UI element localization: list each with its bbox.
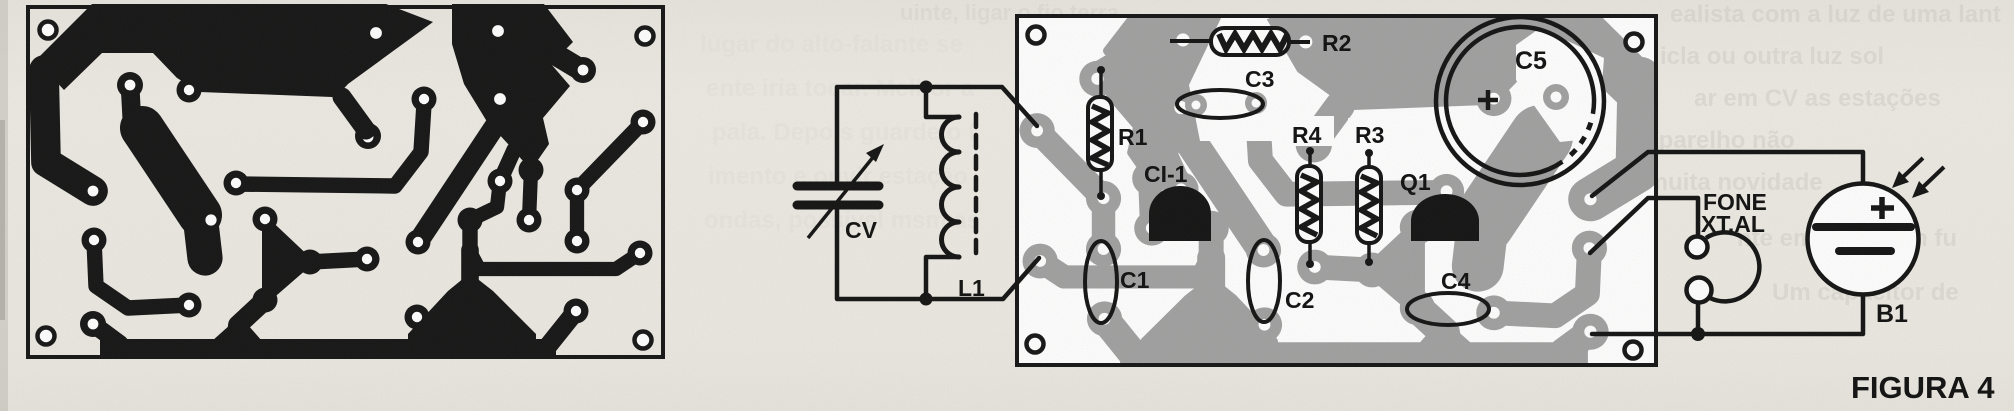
gray holes right mass bbox=[1176, 33, 1189, 46]
gray copper right mass top bbox=[1108, 13, 1230, 178]
gray wire P_c chain bbox=[1494, 248, 1590, 316]
gray pad mound left bbox=[1247, 307, 1282, 342]
FONE XTAL circles bbox=[1687, 237, 1708, 258]
wire L1 left leg top bbox=[926, 87, 959, 117]
C3 solder pads bbox=[1185, 94, 1207, 116]
junction dot fone-bottom wire bbox=[1691, 327, 1705, 341]
gray triangle cluster bbox=[1367, 220, 1420, 316]
wire bottom to B1 bbox=[1592, 293, 1863, 334]
IC CI-1 dome bbox=[1149, 186, 1211, 241]
C5 dashes bbox=[1571, 123, 1591, 156]
capacitor C2 bbox=[1248, 240, 1280, 322]
gray pad under slab edge bbox=[1476, 81, 1511, 116]
C5 inner arc bbox=[1446, 27, 1594, 175]
gray wire bar to p11 bbox=[1105, 319, 1133, 354]
CV arrow bbox=[808, 156, 874, 238]
gray pad p7 bbox=[1134, 211, 1169, 246]
gray pad p10 corner bbox=[1020, 113, 1055, 148]
board hole bottom-left bbox=[1027, 336, 1044, 353]
gray wire P_a stem bbox=[1551, 94, 1553, 131]
gray pad p5 bbox=[1023, 244, 1058, 279]
C5 plus bbox=[1478, 98, 1498, 103]
gray pad bump right mass bbox=[1103, 65, 1123, 77]
coil L1 bbox=[942, 117, 960, 257]
wire FONE to bottom bbox=[1696, 303, 1701, 334]
gray wire p6 to p4 bbox=[1181, 189, 1211, 228]
gray pad bar left end bbox=[1572, 314, 1608, 350]
mounting hole top-left bbox=[40, 22, 57, 39]
gray wire branch to p5 bbox=[1199, 228, 1224, 260]
gray pad p4 bbox=[1194, 211, 1229, 246]
gray wire p2 to blob bbox=[1186, 135, 1263, 251]
label clearances bbox=[1286, 116, 1334, 146]
gray copper mound bbox=[1145, 281, 1274, 360]
gray trace slab taper bbox=[1316, 106, 1340, 139]
gray pad P_c bbox=[1572, 231, 1607, 266]
gray pad P_a bbox=[1535, 76, 1571, 112]
gray pad arm end bbox=[1572, 181, 1608, 217]
gray bottom bar bbox=[1125, 347, 1584, 364]
solar cell B1 bbox=[1808, 184, 1919, 295]
capacitor C3 bbox=[1177, 90, 1263, 118]
wire L1 left leg bottom bbox=[926, 257, 959, 299]
resistor R1 bbox=[1099, 68, 1103, 198]
board hole bottom-right bbox=[1625, 342, 1642, 359]
gray pad (slab taper end) bbox=[1296, 126, 1332, 162]
gray wire left arm bbox=[1590, 79, 1639, 200]
gray wire p6 to blob bbox=[1167, 158, 1181, 189]
gray pad p1 pocket bbox=[1240, 90, 1275, 125]
gray pad p8 bbox=[1086, 181, 1121, 216]
gray wire bar left bbox=[1563, 332, 1590, 352]
mounting hole top-right bbox=[637, 28, 654, 45]
gray wire T1 to p1 bbox=[1257, 113, 1446, 195]
resistor R2 bbox=[1170, 39, 1211, 43]
gray copper top-left slab bbox=[1248, 13, 1647, 106]
gray pad T1 bbox=[1429, 174, 1464, 209]
ghost bleed-through text bbox=[700, 1, 2001, 306]
gray wire p10 to p8 bbox=[1037, 131, 1103, 199]
gray wire diagonal band bbox=[1483, 137, 1541, 224]
white clearance inside C5 bbox=[1516, 28, 1604, 142]
mounting hole bottom-left bbox=[38, 328, 55, 345]
gray wire p8-p9 bbox=[1092, 198, 1115, 249]
white clearance column around R2 and C3 bbox=[1189, 18, 1305, 141]
C5 pad bbox=[1543, 84, 1569, 110]
gray wire triangle to bar bbox=[1417, 308, 1446, 350]
junction dot top bbox=[920, 81, 933, 94]
capacitor CV plates bbox=[797, 182, 879, 191]
capacitor C4 bbox=[1407, 293, 1489, 325]
FONE arc bbox=[1706, 232, 1759, 301]
gray pad p9 bbox=[1086, 232, 1121, 267]
wire board to FONE bbox=[1590, 198, 1698, 253]
wire CV-L1 loop top bbox=[837, 87, 1037, 182]
wire CV-L1 loop bottom bbox=[837, 208, 1039, 299]
transistor Q1 dome bbox=[1411, 194, 1479, 241]
junction dot bottom bbox=[920, 293, 933, 306]
wire board to B1 top bbox=[1592, 152, 1863, 196]
left PCB board frame bbox=[28, 7, 663, 357]
gray pad blob tip bbox=[1132, 161, 1167, 196]
gray wire band tail bbox=[1478, 223, 1483, 266]
gray pad p6 bbox=[1163, 172, 1198, 207]
gray pad P_d bbox=[1476, 295, 1511, 330]
L1 core dashed bbox=[974, 114, 979, 258]
resistor R4 bbox=[1308, 149, 1312, 266]
capacitor C5 outer bbox=[1436, 17, 1604, 185]
mounting hole bottom-right bbox=[635, 332, 652, 349]
gray pad p11 bbox=[1087, 301, 1122, 336]
gray wire mound stem bbox=[1197, 258, 1225, 298]
gray hole h1 bbox=[1299, 35, 1312, 48]
board hole top-left bbox=[1028, 27, 1045, 44]
capacitor C1 bbox=[1085, 241, 1117, 323]
gray wire triangle to pad bbox=[1315, 267, 1372, 270]
right board outline bbox=[1017, 16, 1656, 365]
right board copper (gray, mirrored) bbox=[1020, 13, 1648, 364]
resistor R3 bbox=[1367, 151, 1371, 264]
board hole top-right bbox=[1626, 34, 1643, 51]
gray wire stem to p7 bbox=[1150, 178, 1152, 228]
gray pad p2 bbox=[1246, 233, 1281, 268]
gray pad on band bbox=[1465, 222, 1478, 235]
light arrows bbox=[1902, 158, 1923, 178]
left PCB copper pattern bbox=[36, 4, 656, 356]
